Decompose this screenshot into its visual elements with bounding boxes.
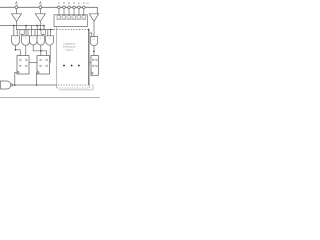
wire pin Q1 drop [58, 9, 60, 15]
wire G6 output [93, 46, 95, 56]
FF2 pin S [46, 59, 48, 61]
FF1 clock wedge [17, 71, 19, 74]
wire G2 input 1 [25, 26, 27, 36]
wire G4 input 2 [42, 30, 44, 36]
terminal pin Q1 [58, 6, 61, 9]
additional-stages box right edge [88, 30, 90, 88]
FFn pin D [93, 59, 95, 61]
label pin B [39, 2, 41, 6]
junction W1 node a [13, 25, 15, 27]
wire G4 output [40, 45, 42, 56]
and-gate G6 [90, 37, 97, 46]
wire G2 output [25, 45, 27, 55]
svg-text:C: C [58, 2, 60, 5]
wire G5 input 2 [50, 30, 52, 36]
buffer cell Q3 [67, 16, 71, 20]
terminal pin B [39, 6, 42, 9]
flip-flop FFn [91, 56, 98, 76]
and-gate G5 [46, 36, 54, 45]
junction W1 node c [36, 25, 38, 27]
svg-text:E: E [78, 2, 80, 5]
label pin A [15, 2, 17, 6]
wire U2 output [39, 21, 41, 29]
FF2 pin Qb [46, 65, 48, 67]
inverter U2 [35, 14, 45, 21]
buffer cell Q6 [82, 16, 86, 20]
junction right rail node h [88, 29, 90, 31]
wire pin A to U1 [15, 9, 17, 14]
FFn pin Qb [96, 65, 98, 67]
additional-stages shadow corner [59, 84, 93, 90]
and-gate G3 [30, 36, 37, 45]
and-gate G1 [12, 36, 20, 46]
junction G4 output node [40, 50, 42, 52]
and-gate G2 [22, 36, 30, 46]
output buffer block U4 [54, 15, 87, 27]
svg-text:B: B [63, 2, 65, 5]
wire clock line dashed [58, 84, 89, 86]
and-gate G4 [37, 36, 45, 45]
nand-gate G7 [1, 81, 11, 89]
junction clock node 2 [36, 84, 38, 86]
svg-text:Shift Register: Shift Register [63, 46, 76, 49]
wire dashed shift bus [54, 29, 89, 31]
junction clock node 1 [14, 84, 16, 86]
wire G4 input 1 [36, 26, 38, 36]
wire W1-W2 link [43, 26, 45, 30]
junction W2 node f [40, 29, 41, 30]
svg-text:na: na [93, 39, 95, 41]
wire G2 input 2 [27, 30, 29, 36]
wire G1 output [16, 45, 21, 55]
FF1 pin Qb [26, 65, 28, 67]
additional-stages box left edge [56, 27, 58, 88]
wire pin Q5 drop [78, 9, 80, 15]
FF2 pin Q [40, 65, 42, 67]
wire clock to FF1 [15, 73, 17, 86]
FF2 pin D [40, 59, 42, 61]
terminal pin Q4 [73, 6, 76, 9]
junction G1 output node [15, 49, 17, 51]
wire G6 input [89, 33, 92, 37]
svg-text:2b: 2b [40, 38, 42, 40]
ellipsis dot 3 [78, 65, 80, 67]
junction G6 output node [93, 51, 95, 53]
terminal pin Q2 [63, 6, 66, 9]
svg-text:DS: DS [86, 3, 90, 5]
wire top input rail [0, 7, 97, 14]
wire bus W1 [0, 25, 44, 27]
FFn pin S [96, 59, 98, 61]
svg-text:S: S [83, 2, 85, 5]
wire rail to FFn D [89, 62, 91, 64]
wire pin Q6 drop [83, 9, 85, 15]
wire clock line [13, 84, 57, 86]
svg-text:1a: 1a [15, 38, 17, 40]
FF2 clock wedge [37, 71, 39, 74]
svg-text:2a: 2a [32, 38, 34, 40]
junction W2 node g [50, 29, 52, 31]
buffer cell Q4 [72, 16, 76, 20]
inverter U3 [89, 14, 98, 21]
svg-text:D: D [73, 2, 75, 5]
wire G2 input 3 [21, 34, 23, 35]
wire right vertical rail [88, 30, 90, 85]
FFn clock wedge [91, 72, 93, 75]
wire G3 output [33, 45, 46, 56]
FF1 pin Q [20, 65, 22, 67]
latch cell LB [41, 30, 45, 35]
wire pin Q4 drop [73, 9, 75, 15]
wire clock to FF2 [36, 73, 38, 86]
wire G1 input 2 [16, 30, 18, 36]
wire G3 input 2 [34, 30, 36, 36]
wire G3 input 1 [31, 26, 33, 36]
additional-stages box bottom edge [57, 87, 89, 89]
wire U3 output [93, 21, 95, 36]
wire G1 input 1 [13, 26, 15, 36]
wire G5 input 1 [47, 30, 49, 36]
wire pin Q3 drop [68, 9, 70, 15]
terminal pin Q6 [83, 6, 86, 9]
buffer cell Q1 [57, 16, 61, 20]
wire FF1 Q to FF2 D [29, 62, 37, 64]
svg-text:(L Additional: (L Additional [63, 43, 75, 46]
junction W1 node b [25, 25, 27, 27]
wire U1 output [16, 21, 18, 29]
wire G5 output [49, 45, 52, 62]
FF1 pin S [26, 59, 28, 61]
svg-text:Stages): Stages) [65, 48, 73, 51]
latch cell LA [20, 30, 24, 35]
terminal pin Q3 [68, 6, 71, 9]
ellipsis dot 1 [63, 65, 65, 67]
buffer cell Q2 [62, 16, 66, 20]
svg-text:3a: 3a [49, 38, 51, 40]
wire bottom rail [0, 97, 100, 99]
FF1 pin D [20, 59, 22, 61]
wire pin Q2 drop [63, 9, 65, 15]
terminal pin A [15, 6, 18, 9]
wire pin B to U2 [39, 9, 41, 14]
flip-flop FF2 [37, 56, 50, 75]
svg-text:1b: 1b [25, 38, 27, 40]
flip-flop FF1 [17, 56, 29, 75]
ellipsis dot 2 [71, 65, 73, 67]
wire bus W2 [16, 29, 54, 31]
junction W2 node e [43, 29, 45, 31]
G7 output bubble [11, 84, 13, 86]
inverter U1 [12, 14, 22, 21]
terminal pin Q5 [78, 6, 81, 9]
FFn pin Q [93, 65, 95, 67]
buffer cell Q5 [77, 16, 81, 20]
svg-text:R: R [68, 2, 70, 5]
junction W1 node d [43, 25, 45, 27]
